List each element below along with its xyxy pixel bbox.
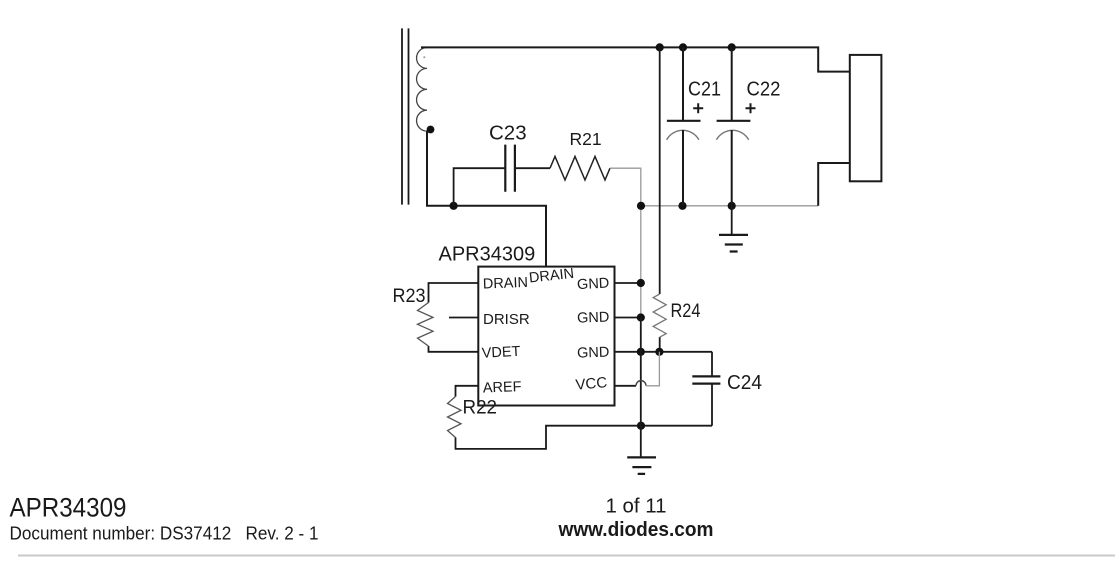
capacitor C22 top wire <box>731 47 733 120</box>
node: dot top rail at C21 <box>679 43 687 51</box>
resistor R23 zigzag <box>418 303 434 347</box>
node: dot bottom rail at C21 <box>678 202 686 210</box>
wire (gray): VCC to R24 bottom node <box>646 352 659 386</box>
wire: GND2 pin <box>615 317 641 319</box>
wire: VCC pin <box>615 385 637 387</box>
svg-text:Document number: DS37412 Rev: Document number: DS37412 Rev. 2 - 1 <box>10 524 319 544</box>
wire: R23 bottom to VDET pin <box>429 346 479 352</box>
wire: top rail from transformer to output <box>421 47 850 71</box>
capacitor C21 plus sign <box>693 103 703 113</box>
node: dot at ground junction <box>637 422 645 430</box>
wire: main ground vertical <box>640 318 642 458</box>
ground symbol under C22 <box>731 206 733 235</box>
footer separator rule <box>18 555 1115 557</box>
wire (gray): R21 right lead down to bottom rail <box>610 168 641 206</box>
transformer polarity dot <box>427 126 435 134</box>
transformer T core line 2 <box>408 28 410 204</box>
wire: output lower connector <box>818 163 850 206</box>
IC U1 APR34309 box <box>478 267 614 406</box>
node: dot GND3/R24 <box>655 348 663 356</box>
wire: AREF pin to R22 <box>456 386 479 397</box>
wire: GND3 pin across to C24 <box>615 352 713 377</box>
svg-text:DRISR: DRISR <box>483 311 530 328</box>
wire: C23 to R21 <box>515 167 550 169</box>
capacitor C21 top wire <box>682 47 684 120</box>
resistor R24 top lead <box>659 47 661 294</box>
capacitor C22 bottom wire <box>731 130 733 206</box>
speck near winding top <box>423 56 425 58</box>
svg-text:GND: GND <box>577 310 610 327</box>
svg-text:R24: R24 <box>671 300 701 322</box>
svg-text:1 of 11: 1 of 11 <box>606 495 667 517</box>
resistor R22 zigzag <box>448 397 462 438</box>
capacitor C22 top plate <box>717 120 751 122</box>
ground symbol at bottom center <box>627 457 656 474</box>
wire: GND1 pin <box>615 282 641 284</box>
node: dot bottom rail at C22 <box>728 202 736 210</box>
svg-text:C22: C22 <box>747 79 781 101</box>
output load box <box>850 55 882 181</box>
wire (gray): vertical from bottom rail down to GND pins <box>640 206 642 318</box>
capacitor C21 bottom wire <box>682 130 684 206</box>
svg-text:GND: GND <box>577 276 610 294</box>
node: dot top rail at C22 <box>728 43 736 51</box>
svg-text:VCC: VCC <box>575 374 608 394</box>
resistor R21 zigzag <box>550 156 610 180</box>
wire (gray): bottom rail to output <box>641 205 818 207</box>
capacitor C24 bottom wire <box>711 384 713 426</box>
svg-text:C24: C24 <box>727 372 762 394</box>
capacitor C22 curved plate <box>716 130 748 139</box>
wire: riser to C23 left lead <box>454 168 506 206</box>
svg-text:VDET: VDET <box>481 344 521 362</box>
node: dot GND3 <box>637 348 645 356</box>
svg-text:R22: R22 <box>463 397 498 419</box>
svg-text:www.diodes.com: www.diodes.com <box>558 519 714 541</box>
node: dot GND2 <box>637 313 645 321</box>
svg-text:C23: C23 <box>489 121 527 144</box>
svg-text:DRAIN: DRAIN <box>483 275 529 293</box>
resistor R24 zigzag <box>653 294 666 337</box>
svg-text:R23: R23 <box>393 285 426 307</box>
svg-text:R21: R21 <box>570 129 602 149</box>
node: dot top rail at R24 branch <box>656 43 664 51</box>
pin stub DRISR <box>449 317 478 319</box>
svg-text:C21: C21 <box>688 79 721 101</box>
svg-text:APR34309: APR34309 <box>10 493 127 523</box>
svg-text:GND: GND <box>577 345 610 362</box>
wire: ground node to C24 bottom <box>641 425 712 427</box>
wire: R22 bottom around to ground node <box>456 426 642 449</box>
capacitor C24 plates <box>692 376 720 383</box>
capacitor C21 top plate <box>667 120 701 122</box>
node: junction dot on bottom-left wire <box>450 202 458 210</box>
capacitor C21 curved plate <box>667 130 699 139</box>
wire: DRAIN pin to R23 <box>429 283 479 303</box>
resistor R24 bottom lead <box>659 337 661 352</box>
node: dot GND1 <box>637 279 645 287</box>
wire: transformer bottom lead down and right to IC top pin <box>427 131 546 267</box>
svg-text:AREF: AREF <box>483 379 522 396</box>
capacitor C22 plus sign <box>746 103 756 113</box>
svg-text:APR34309: APR34309 <box>439 244 536 266</box>
transformer T core line 1 <box>401 28 403 204</box>
transformer T secondary winding <box>417 48 427 132</box>
node: dot bottom rail at gray riser <box>637 202 645 210</box>
wire hop: VCC jump over ground line <box>636 381 646 386</box>
capacitor C23 plates <box>505 145 515 192</box>
